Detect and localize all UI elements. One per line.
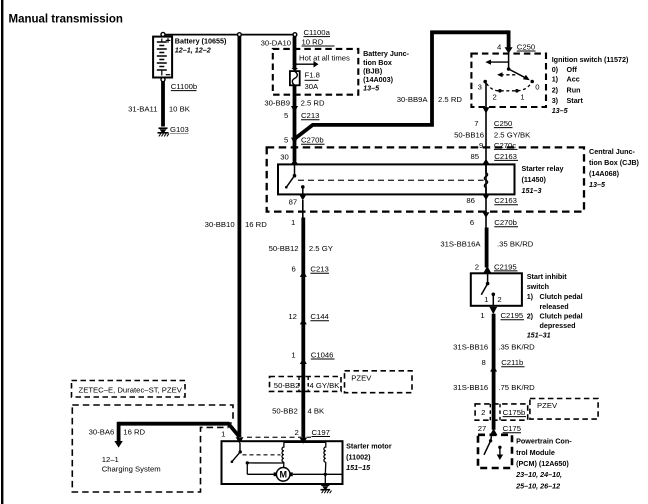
connector label 8 C211b <box>482 358 525 367</box>
svg-text:151–15: 151–15 <box>346 463 371 472</box>
svg-text:trol Module: trol Module <box>516 448 555 457</box>
arrow into C144 pin12 <box>300 318 307 324</box>
battery name label <box>175 36 227 54</box>
svg-text:C211b: C211b <box>501 358 523 367</box>
wire battery to ground <box>161 82 165 127</box>
svg-text:tion Box (CJB): tion Box (CJB) <box>589 158 640 167</box>
arrow into start inhibit switch pin 2 <box>483 266 491 273</box>
connector label 2 C175b <box>481 408 526 417</box>
battery junction box BJB dashed outline <box>273 49 359 95</box>
connector C1100a label with 10 RD <box>302 28 335 47</box>
arrow out of start inhibit switch pin 1 <box>489 307 497 314</box>
wire label 30-BB9A / 2.5 RD <box>397 95 463 104</box>
node junction circle at main feed tap <box>293 33 297 37</box>
svg-text:1: 1 <box>291 218 295 227</box>
relay mechanical link dashed <box>298 179 484 181</box>
pin label 1 at starter <box>221 429 225 438</box>
svg-text:2.5 GY: 2.5 GY <box>309 244 333 253</box>
pin label 1 at CJB exit <box>291 218 295 227</box>
svg-text:Run: Run <box>567 85 581 94</box>
svg-text:30-DA10: 30-DA10 <box>261 38 291 47</box>
svg-text:16 RD: 16 RD <box>123 428 145 437</box>
svg-text:31S-BB16A: 31S-BB16A <box>440 239 481 248</box>
connector label 5 C270b <box>284 136 324 145</box>
svg-text:C250: C250 <box>517 43 535 52</box>
relay pin 30 label <box>280 153 289 162</box>
svg-text:Starter motor: Starter motor <box>346 442 392 451</box>
arrow out of CJB to C270b pin6 <box>483 212 490 217</box>
svg-text:Off: Off <box>567 65 578 74</box>
svg-text:25–10, 26–12: 25–10, 26–12 <box>515 481 560 490</box>
svg-text:C2195: C2195 <box>494 262 517 271</box>
connector label 85 C2163 <box>471 152 518 161</box>
svg-text:PZEV: PZEV <box>537 401 558 410</box>
svg-text:2.5 RD: 2.5 RD <box>438 95 462 104</box>
connector label 27 C175 <box>478 424 521 433</box>
svg-text:3: 3 <box>478 82 482 91</box>
wire label 30-DA10 <box>261 38 291 47</box>
wire label 50-BB12 / 2.5 GY <box>269 244 333 253</box>
svg-text:50-BB12: 50-BB12 <box>269 244 299 253</box>
start inhibit switch internals <box>481 273 501 306</box>
svg-text:.35 BK/RD: .35 BK/RD <box>497 239 534 248</box>
svg-text:Charging System: Charging System <box>102 465 161 474</box>
relay pin 87 label <box>289 197 298 206</box>
connector label 4 C250 <box>497 43 535 52</box>
relay name label <box>522 164 564 195</box>
svg-text:2): 2) <box>552 85 559 94</box>
svg-text:C213: C213 <box>310 265 328 274</box>
connector label 86 C2163 <box>466 196 518 205</box>
wire label 31S-BB16 / .75 BK/RD <box>453 383 535 392</box>
svg-text:C1046: C1046 <box>311 350 334 359</box>
svg-text:50-BB16: 50-BB16 <box>454 130 484 139</box>
connector label 2 C197 <box>295 428 330 437</box>
svg-text:Starter relay: Starter relay <box>522 164 564 173</box>
wire relay 87 to starter pin 2 <box>302 200 305 439</box>
arrow into relay coil pin 85 <box>483 159 490 165</box>
wire battery top horizontal <box>165 34 293 36</box>
arrow into C213 pin6 <box>300 271 307 277</box>
svg-text:31S-BB16: 31S-BB16 <box>453 343 488 352</box>
svg-text:16 RD: 16 RD <box>245 220 267 229</box>
svg-text:2: 2 <box>493 92 497 101</box>
svg-text:85: 85 <box>471 152 480 161</box>
connector label 9 C270c <box>479 141 517 150</box>
svg-text:8: 8 <box>482 358 486 367</box>
svg-text:Ignition switch (11572): Ignition switch (11572) <box>552 55 629 64</box>
svg-text:31S-BB16: 31S-BB16 <box>453 383 488 392</box>
svg-text:30-BA6: 30-BA6 <box>89 428 115 437</box>
svg-text:Central Junc-: Central Junc- <box>589 147 636 156</box>
PZEV dashed box lower right <box>530 399 598 420</box>
arrow into starter pin 1 <box>236 437 244 443</box>
powertrain control module PCM dashed box <box>478 435 512 468</box>
wire label 31S-BB16A / .35 BK/RD <box>440 239 533 248</box>
connector label 1 C2195 <box>480 311 524 320</box>
arrow into ignition switch pin 4 <box>505 47 513 53</box>
svg-text:7: 7 <box>474 119 478 128</box>
start inhibit switch name label <box>527 272 583 340</box>
svg-text:PZEV: PZEV <box>351 373 372 382</box>
svg-text:.35 BK/RD: .35 BK/RD <box>498 343 535 352</box>
svg-text:Battery (10655): Battery (10655) <box>175 36 227 45</box>
wire inhibit switch to PCM <box>492 314 496 430</box>
svg-text:27: 27 <box>478 424 487 433</box>
svg-text:F1.8: F1.8 <box>305 71 320 80</box>
wire C270b to start inhibit switch <box>485 228 489 268</box>
svg-text:0): 0) <box>552 65 559 74</box>
svg-text:2: 2 <box>295 428 299 437</box>
wire main feed battery to relay 30 <box>293 37 297 162</box>
svg-text:2: 2 <box>481 408 485 417</box>
svg-text:13–5: 13–5 <box>552 106 569 115</box>
svg-text:C213: C213 <box>301 111 319 120</box>
svg-text:C144: C144 <box>310 312 329 321</box>
CJB name label <box>589 147 640 189</box>
starter motor M1 (11002) box <box>222 441 343 484</box>
wire label 31-BA11 / 10 BK <box>128 105 191 114</box>
svg-text:(11450): (11450) <box>522 175 547 184</box>
connector label 6 C213 <box>292 265 329 274</box>
svg-text:C175: C175 <box>503 424 521 433</box>
charging system reference label <box>102 455 161 474</box>
svg-text:87: 87 <box>289 197 298 206</box>
svg-text:30: 30 <box>280 153 289 162</box>
svg-text:Acc: Acc <box>567 75 580 84</box>
wire branch to ignition switch <box>296 30 509 137</box>
svg-text:C270b: C270b <box>301 136 324 145</box>
arrow into PCM pin 27 <box>490 429 498 436</box>
svg-text:10 RD: 10 RD <box>302 38 324 47</box>
page left border bar <box>1 0 3 504</box>
fuse label F1.8 / 30A <box>305 71 320 91</box>
svg-text:5: 5 <box>284 111 288 120</box>
svg-text:Manual transmission: Manual transmission <box>9 14 123 26</box>
svg-text:2: 2 <box>497 295 501 304</box>
svg-text:(14A068): (14A068) <box>589 169 620 178</box>
svg-text:Clutch pedal: Clutch pedal <box>540 292 583 301</box>
svg-text:13–5: 13–5 <box>589 180 606 189</box>
svg-text:M: M <box>279 470 287 480</box>
svg-text:5: 5 <box>284 136 288 145</box>
battery B1 (10655) <box>153 32 172 81</box>
svg-text:12–1, 12–2: 12–1, 12–2 <box>175 46 211 55</box>
wire label 31S-BB16 / .35 BK/RD <box>453 343 535 352</box>
starter motor internals <box>231 442 342 484</box>
PZEV dashed box middle <box>345 371 413 393</box>
svg-text:Start: Start <box>567 96 584 105</box>
svg-text:Powertrain Con-: Powertrain Con- <box>516 437 572 446</box>
title Manual transmission <box>9 14 123 26</box>
svg-text:30-BB9A: 30-BB9A <box>397 95 429 104</box>
svg-text:86: 86 <box>466 196 475 205</box>
connector label 2 C2195 <box>475 262 518 271</box>
svg-text:50-BB2: 50-BB2 <box>272 407 298 416</box>
wire battery cable to starter <box>237 37 241 438</box>
wire label 30-BB10 / 16 RD <box>205 220 268 229</box>
start inhibit switch S1 box <box>471 273 522 306</box>
svg-text:Hot at all times: Hot at all times <box>299 53 350 62</box>
svg-text:6: 6 <box>470 218 474 227</box>
svg-text:4 GY/BK: 4 GY/BK <box>310 381 341 390</box>
BJB name label <box>363 49 410 92</box>
relay switch internals <box>285 164 305 194</box>
svg-text:2): 2) <box>527 311 534 320</box>
svg-text:C2195: C2195 <box>501 311 524 320</box>
svg-text:151–31: 151–31 <box>527 331 551 340</box>
wire label 50-BB16 / 2.5 GY/BK <box>454 130 531 139</box>
svg-text:4 BK: 4 BK <box>308 407 326 416</box>
connector label 7 C250 <box>474 119 512 128</box>
ignition switch name and positions <box>552 55 629 115</box>
svg-text:C2163: C2163 <box>494 152 517 161</box>
svg-text:1): 1) <box>552 75 559 84</box>
arrow into C1046 pin1 <box>300 358 307 364</box>
wire ignition pin3 down to CJB coil <box>485 83 487 228</box>
svg-text:0: 0 <box>535 82 539 91</box>
arrow out of relay coil pin 86 <box>483 195 490 201</box>
svg-text:Start inhibit: Start inhibit <box>527 272 568 281</box>
hot feed arrow <box>293 61 319 68</box>
svg-text:1: 1 <box>484 295 488 304</box>
arrow into relay pin 30 <box>291 159 298 165</box>
ground G103 <box>158 128 169 136</box>
arrow out of relay pin 87 <box>299 195 306 201</box>
svg-text:ZETEC–E, Duratec–ST, PZEV: ZETEC–E, Duratec–ST, PZEV <box>79 386 183 395</box>
svg-text:Clutch pedal: Clutch pedal <box>540 311 583 320</box>
svg-text:released: released <box>540 302 569 311</box>
svg-text:C2163: C2163 <box>494 196 517 205</box>
connector label 6 C270b <box>470 218 518 227</box>
svg-text:30-BB9: 30-BB9 <box>264 99 290 108</box>
wire label 50-BB2 / 4 BK <box>272 407 325 416</box>
connector label 5 C213 <box>284 111 319 120</box>
arrow into C213 pin5 <box>291 106 298 113</box>
connector C175b dashed box <box>475 404 528 420</box>
arrow into starter pin 2 <box>299 438 307 444</box>
svg-text:C1100b: C1100b <box>171 82 197 91</box>
svg-text:30-BB10: 30-BB10 <box>205 220 235 229</box>
arrow into C270b pin5 <box>291 138 298 145</box>
central junction box CJB dashed outline <box>267 147 584 211</box>
svg-text:50-BB2: 50-BB2 <box>274 381 300 390</box>
svg-text:2.5 RD: 2.5 RD <box>301 99 325 108</box>
ground label G103 <box>170 125 189 134</box>
starter motor ground <box>321 485 332 493</box>
ZETEC-E Duratec-ST PZEV label dashed box <box>72 381 186 398</box>
starter motor name label <box>346 442 392 473</box>
svg-text:6: 6 <box>292 265 296 274</box>
svg-text:3): 3) <box>552 96 559 105</box>
fuse F1.8 30A <box>290 68 300 85</box>
svg-text:13–5: 13–5 <box>363 84 380 93</box>
connector C1100b label <box>171 82 197 91</box>
svg-text:1: 1 <box>480 311 484 320</box>
wire branch to charging system <box>114 422 239 448</box>
svg-text:switch: switch <box>527 282 549 291</box>
svg-text:C1100a: C1100a <box>304 28 331 37</box>
ignition switch internals <box>478 53 540 101</box>
svg-text:1: 1 <box>520 92 524 101</box>
svg-text:2: 2 <box>475 262 479 271</box>
svg-text:depressed: depressed <box>540 321 576 330</box>
PCM name label <box>515 437 572 491</box>
ignition switch U-IGN (11572) dashed box <box>471 54 546 107</box>
svg-text:1): 1) <box>527 292 534 301</box>
arrow out of ignition pin 3 <box>483 107 490 113</box>
svg-text:C270b: C270b <box>494 218 517 227</box>
svg-text:(PCM) (12A650): (PCM) (12A650) <box>516 459 569 468</box>
svg-text:C197: C197 <box>312 428 330 437</box>
svg-text:10 BK: 10 BK <box>169 105 191 114</box>
svg-text:(11002): (11002) <box>346 452 371 461</box>
svg-text:1: 1 <box>291 350 295 359</box>
svg-text:C175b: C175b <box>503 408 526 417</box>
svg-text:4: 4 <box>497 43 502 52</box>
wire splice box 50-BB2 4 GY/BK dashed <box>270 377 342 392</box>
svg-text:12–1: 12–1 <box>102 455 119 464</box>
node junction circle at battery cable tap <box>238 33 242 37</box>
wire label 30-BA6 / 16 RD <box>89 428 146 437</box>
arrow into C211b pin8 <box>490 366 497 372</box>
wire label 30-BB9 / 2.5 RD <box>264 99 325 108</box>
starter relay K1 (11450) box <box>278 164 515 194</box>
connector label 12 C144 <box>288 312 329 321</box>
svg-text:2.5 GY/BK: 2.5 GY/BK <box>494 130 531 139</box>
svg-text:31-BA11: 31-BA11 <box>128 105 157 114</box>
svg-text:G103: G103 <box>170 125 189 134</box>
svg-text:C250: C250 <box>494 119 512 128</box>
svg-text:30A: 30A <box>305 82 320 91</box>
svg-text:1: 1 <box>221 429 225 438</box>
svg-text:12: 12 <box>288 312 297 321</box>
relay coil winding <box>484 164 487 194</box>
svg-text:151–3: 151–3 <box>522 186 542 195</box>
svg-text:23–10, 24–10,: 23–10, 24–10, <box>515 470 562 479</box>
connector label 1 C1046 <box>291 350 334 359</box>
Hot at all times label <box>299 53 350 62</box>
connector C197 dashed line <box>247 436 311 438</box>
PCM internals <box>484 435 503 460</box>
charging system dashed outline <box>72 405 233 492</box>
svg-text:9: 9 <box>479 141 483 150</box>
svg-text:.75 BK/RD: .75 BK/RD <box>498 383 535 392</box>
